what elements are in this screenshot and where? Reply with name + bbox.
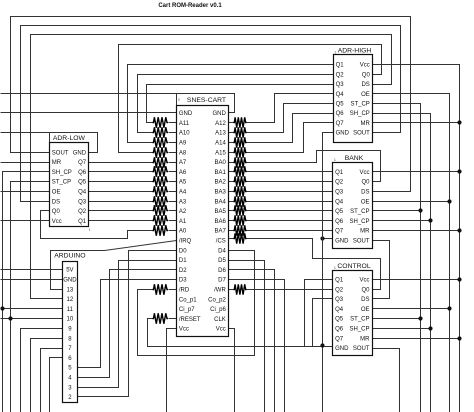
wire wire A8 resistor to pin bbox=[169, 152, 177, 154]
svg-text:OE: OE bbox=[361, 199, 370, 205]
svg-text:SH_CP: SH_CP bbox=[349, 327, 369, 333]
wire net ARDUINO.5 to SNES.D3 bbox=[78, 280, 177, 368]
svg-text:Q6: Q6 bbox=[78, 170, 87, 176]
svg-text:SOUT: SOUT bbox=[353, 131, 370, 137]
resistor R A0 bbox=[153, 225, 169, 235]
junction SH rail at BANK.SH_CP bbox=[428, 218, 432, 222]
svg-text:Q6: Q6 bbox=[335, 219, 344, 225]
wire wire left edge to ARDUINO.11 bbox=[1, 308, 63, 310]
resistor R WR bbox=[234, 284, 247, 294]
svg-text:D3: D3 bbox=[179, 278, 187, 284]
wire net ADR-HIGH.OE rail bbox=[373, 94, 450, 412]
wire wire A11 resistor to pin bbox=[169, 122, 177, 124]
resistor R A14 bbox=[234, 137, 247, 147]
wire net ARDUINO.2 to SNES.D0 bbox=[78, 251, 177, 397]
svg-text:DS: DS bbox=[361, 190, 369, 196]
wire net ADR-HIGH.SH_CP rail bbox=[373, 114, 431, 412]
svg-text:A14: A14 bbox=[215, 141, 226, 147]
pin labels BANK left bbox=[335, 170, 349, 245]
wire net ADR-LOW.ST_CP down-left rail bbox=[11, 182, 50, 412]
wire net ARDUINO.9 down rail bbox=[21, 329, 63, 412]
svg-text:Vcc: Vcc bbox=[359, 278, 369, 284]
resistor R A10 bbox=[153, 127, 169, 137]
svg-text:Q3: Q3 bbox=[336, 82, 345, 88]
svg-text:ADR-HIGH: ADR-HIGH bbox=[338, 47, 372, 54]
junction Vcc rail at ADR-HIGH.MR bbox=[457, 120, 461, 124]
svg-text:Q2: Q2 bbox=[336, 72, 345, 78]
wire wire BA4 pin to resistor bbox=[229, 201, 234, 203]
wire wire /RESET resistor to pin bbox=[169, 318, 177, 320]
svg-text:Q0: Q0 bbox=[362, 72, 371, 78]
svg-text:13: 13 bbox=[67, 287, 74, 293]
svg-text:A9: A9 bbox=[179, 141, 187, 147]
junction OE rail at BANK.OE bbox=[447, 199, 451, 203]
wire net SNES.D6 down rail bbox=[229, 270, 275, 412]
wire net ARDUINO.8 down rail bbox=[31, 339, 63, 412]
IC U5 CONTROL bbox=[333, 263, 373, 356]
wire net ADR-LOW.SH_CP down-left rail bbox=[3, 172, 50, 412]
pin labels BANK right bbox=[349, 170, 370, 245]
svg-text:12: 12 bbox=[67, 297, 74, 303]
wire net ADR-HIGH.Vcc rail bbox=[373, 65, 460, 412]
svg-text:A5: A5 bbox=[179, 180, 187, 186]
resistor R RD bbox=[153, 284, 169, 294]
svg-text:Q4: Q4 bbox=[335, 199, 344, 205]
svg-text:D0: D0 bbox=[179, 248, 187, 254]
svg-text:BANK: BANK bbox=[345, 155, 364, 162]
wire net SNES.A9 to ADR-HIGH.Q1 bbox=[128, 65, 334, 143]
svg-text:ST_CP: ST_CP bbox=[52, 180, 71, 186]
wire wire A1 resistor to pin bbox=[169, 220, 177, 222]
wire wire A6 resistor to pin bbox=[169, 171, 177, 173]
svg-text:BA1: BA1 bbox=[214, 170, 226, 176]
junction ST rail at BANK.ST_CP bbox=[418, 208, 422, 212]
resistor R BA0 bbox=[234, 157, 247, 167]
wire wire BA6 pin to resistor bbox=[229, 220, 234, 222]
resistor R BA2 bbox=[234, 176, 247, 186]
wire wire /RD resistor to pin bbox=[169, 289, 177, 291]
wire wire A9 resistor to pin bbox=[169, 142, 177, 144]
svg-text:CONTROL: CONTROL bbox=[337, 263, 370, 270]
svg-text:Vcc: Vcc bbox=[216, 327, 226, 333]
svg-text:11: 11 bbox=[67, 307, 74, 313]
wire net SNES.A14 to ADR-HIGH.Q6 bbox=[247, 114, 334, 143]
svg-text:Q5: Q5 bbox=[335, 317, 344, 323]
resistor R BA4 bbox=[234, 196, 247, 206]
wire net GND left edge to SNES.GND right (over title) bbox=[1, 94, 235, 113]
wire wire BA2 pin to resistor bbox=[229, 181, 234, 183]
resistor R A4 bbox=[153, 186, 169, 196]
svg-text:Q1: Q1 bbox=[78, 219, 87, 225]
wire wire A2 resistor to pin bbox=[169, 210, 177, 212]
junction ST rail at CONTROL.ST_CP bbox=[418, 316, 422, 320]
junction Vcc rail at CONTROL.MR bbox=[457, 336, 461, 340]
svg-text:A13: A13 bbox=[215, 131, 226, 137]
resistor R A9 bbox=[153, 137, 169, 147]
svg-text:Q6: Q6 bbox=[336, 111, 345, 117]
wire wire A15 pin to resistor bbox=[229, 152, 234, 154]
wire wire BA0 pin to resistor bbox=[229, 162, 234, 164]
wire net SNES./WR to CONTROL.Q2 bbox=[247, 289, 333, 291]
svg-text:A12: A12 bbox=[215, 121, 226, 127]
svg-text:Cart ROM-Reader v0.1: Cart ROM-Reader v0.1 bbox=[158, 3, 222, 9]
resistor R BA7 bbox=[234, 225, 247, 235]
svg-text:BA6: BA6 bbox=[214, 219, 226, 225]
svg-text:GND: GND bbox=[73, 150, 87, 156]
wire net SNES.A13 to ADR-HIGH.Q5 bbox=[247, 104, 334, 133]
wire net ARDUINO.13 to SNES./IRQ bbox=[51, 241, 177, 290]
resistor R A3 bbox=[153, 196, 169, 206]
wire wire BANK.OE to OE rail bbox=[373, 201, 450, 203]
wire net ARDUINO.7 down rail bbox=[41, 349, 63, 412]
resistor R A7 bbox=[153, 157, 169, 167]
wire wire A10 resistor to pin bbox=[169, 132, 177, 134]
svg-text:SOUT: SOUT bbox=[353, 346, 370, 352]
wire wire BA1 pin to resistor bbox=[229, 171, 234, 173]
svg-text:GND: GND bbox=[179, 111, 193, 117]
svg-text:BA0: BA0 bbox=[214, 160, 226, 166]
svg-text:SOUT: SOUT bbox=[353, 239, 370, 245]
wire wire ADR-LOW title loop stub bbox=[49, 133, 51, 143]
wire net ARDUINO.6 down rail bbox=[50, 358, 63, 412]
resistor R A13 bbox=[234, 127, 247, 137]
svg-text:BA3: BA3 bbox=[214, 190, 226, 196]
wire net ADR-LOW.DS to ADR-HIGH.SOUT (top bus 2) bbox=[21, 26, 401, 202]
wire wire A5 resistor to pin bbox=[169, 181, 177, 183]
wire wire left edge to ARDUINO.5V bbox=[1, 269, 63, 271]
svg-text:/CS: /CS bbox=[216, 239, 226, 245]
svg-text:BA7: BA7 bbox=[214, 229, 226, 235]
resistor R A12 bbox=[234, 117, 247, 127]
resistor R A15 bbox=[234, 147, 247, 157]
wire net SNES.BA5 to BANK.Q5 bbox=[247, 210, 333, 212]
IC U1 SNES-CART bbox=[177, 97, 229, 337]
wire net ADR-HIGH.ST_CP rail bbox=[373, 104, 421, 412]
wire wire BA7 pin to resistor bbox=[229, 230, 234, 232]
wire wire CONTROL.ST_CP to ST rail bbox=[373, 318, 421, 320]
svg-text:D5: D5 bbox=[218, 258, 226, 264]
wire net ADR-LOW.Q0 to SNES.A0 bbox=[41, 211, 153, 239]
junction GND bus at CONTROL.GND bbox=[320, 343, 324, 347]
wire wire A7 resistor to pin bbox=[169, 162, 177, 164]
svg-text:Q3: Q3 bbox=[78, 199, 87, 205]
svg-text:Q1: Q1 bbox=[336, 63, 345, 69]
svg-text:5V: 5V bbox=[66, 268, 73, 274]
wire wire A14 pin to resistor bbox=[229, 142, 234, 144]
svg-text:DS: DS bbox=[361, 82, 369, 88]
wire net ADR-LOW.Q4 to SNES.A4 bbox=[89, 191, 153, 193]
pin labels ARDUINO bbox=[63, 268, 77, 401]
wire net SNES.Vcc right down rail bbox=[229, 329, 235, 412]
wire net SNES.A11 to ADR-HIGH.Q3 bbox=[147, 85, 334, 123]
svg-text:Q3: Q3 bbox=[335, 297, 344, 303]
svg-text:MR: MR bbox=[360, 121, 370, 127]
pin labels CONTROL right bbox=[349, 278, 370, 353]
wire net SNES.A10 to ADR-HIGH.Q2 bbox=[138, 75, 334, 133]
wire net SNES./CS to CONTROL.Q0 bbox=[247, 239, 381, 290]
svg-text:BA4: BA4 bbox=[214, 199, 226, 205]
svg-text:Q4: Q4 bbox=[78, 190, 87, 196]
resistor R A8 bbox=[153, 147, 169, 157]
wire wire A12 pin to resistor bbox=[229, 122, 234, 124]
svg-text:ST_CP: ST_CP bbox=[350, 102, 369, 108]
wire net ARDUINO.3 to SNES.D1 bbox=[78, 261, 177, 388]
junction SH_CP rail joins ARDUINO.11 bbox=[0, 306, 4, 310]
IC U6 ARDUINO bbox=[54, 252, 85, 402]
svg-text:D2: D2 bbox=[179, 268, 187, 274]
svg-text:Ci_p7: Ci_p7 bbox=[179, 307, 195, 313]
wire net SNES.BA6 to BANK.Q6 bbox=[247, 220, 333, 222]
wire wire BANK.MR to Vcc rail bbox=[373, 230, 460, 232]
svg-text:Q5: Q5 bbox=[335, 209, 344, 215]
wire wire left edge to ARDUINO.GND bbox=[1, 279, 63, 281]
wire net SNES.D7 down rail bbox=[229, 280, 285, 412]
wire net SNES.BA2 to BANK.Q2 bbox=[247, 181, 333, 183]
wire wire BANK.ST_CP to ST rail bbox=[373, 210, 421, 212]
svg-text:Q0: Q0 bbox=[361, 180, 370, 186]
svg-text:OE: OE bbox=[361, 307, 370, 313]
svg-text:Q7: Q7 bbox=[336, 121, 345, 127]
svg-text:BA5: BA5 bbox=[214, 209, 226, 215]
svg-text:ARDUINO: ARDUINO bbox=[54, 252, 85, 259]
svg-text:Vcc: Vcc bbox=[52, 219, 62, 225]
svg-text:OE: OE bbox=[361, 92, 370, 98]
wire net SNES.BA0 to BANK.Q0 bbox=[247, 151, 381, 182]
wire net SNES.A12 to ADR-HIGH.Q4 bbox=[247, 94, 334, 123]
svg-text:Co_p2: Co_p2 bbox=[208, 297, 226, 303]
wire wire CONTROL.Vcc to Vcc rail bbox=[373, 279, 460, 281]
svg-text:Q4: Q4 bbox=[336, 92, 345, 98]
wire net SNES.BA1 to BANK.Q1 bbox=[247, 171, 333, 173]
svg-text:Q2: Q2 bbox=[78, 209, 87, 215]
wire wire BA3 pin to resistor bbox=[229, 191, 234, 193]
svg-text:Q4: Q4 bbox=[335, 307, 344, 313]
wire net SNES.A8 to ADR-HIGH.Q0 (top bus 4) bbox=[119, 45, 382, 153]
resistor R A1 bbox=[153, 215, 169, 225]
wire net ADR-HIGH.GND to GND bus bbox=[323, 133, 334, 412]
svg-text:/WR: /WR bbox=[214, 288, 226, 294]
wire net SNES./RESET to GND rail bbox=[148, 319, 333, 347]
wire wire left edge to ADR-LOW.Vcc bbox=[1, 220, 50, 222]
wire net CONTROL.Q1 down to GND line bbox=[305, 280, 333, 347]
pin labels SNES-CART right bbox=[208, 111, 226, 333]
svg-text:SOUT: SOUT bbox=[52, 150, 69, 156]
svg-text:ST_CP: ST_CP bbox=[350, 317, 369, 323]
svg-text:10: 10 bbox=[67, 317, 74, 323]
svg-text:Vcc: Vcc bbox=[359, 170, 369, 176]
wire net SNES.A15 to ADR-HIGH.Q7 bbox=[247, 123, 334, 153]
wire net CONTROL.Q3 down to GND line bbox=[313, 299, 333, 347]
IC U2 ADR-LOW bbox=[50, 135, 91, 232]
wire wire BA5 pin to resistor bbox=[229, 210, 234, 212]
wire wire BANK.SH_CP to SH rail bbox=[373, 220, 431, 222]
resistor R BA3 bbox=[234, 186, 247, 196]
wire wire A3 resistor to pin bbox=[169, 201, 177, 203]
svg-text:A1: A1 bbox=[179, 219, 187, 225]
wire net ADR-LOW.Q2 to SNES.A2 bbox=[89, 210, 153, 212]
svg-text:GND: GND bbox=[336, 131, 350, 137]
wire net ARDUINO.12 to ADR-HIGH.DS (top bus 3) bbox=[31, 35, 392, 299]
wire net GND left edge to ADR-LOW.GND (over title) bbox=[1, 133, 98, 153]
svg-text:GND: GND bbox=[63, 278, 77, 284]
svg-text:SH_CP: SH_CP bbox=[349, 219, 369, 225]
wire wire left edge to ADR-LOW.OE bbox=[1, 191, 50, 193]
svg-text:MR: MR bbox=[52, 160, 62, 166]
wire net SNES.Vcc left down rail bbox=[167, 329, 177, 412]
resistor R RESET bbox=[153, 313, 169, 323]
resistor R BA6 bbox=[234, 215, 247, 225]
svg-text:SH_CP: SH_CP bbox=[52, 170, 72, 176]
svg-text:A0: A0 bbox=[179, 229, 187, 235]
wire wire CONTROL.OE to OE rail bbox=[373, 308, 450, 310]
svg-text:DS: DS bbox=[52, 199, 60, 205]
wire net ARDUINO.4 to SNES.D2 bbox=[78, 270, 177, 378]
svg-text:/IRQ: /IRQ bbox=[179, 239, 192, 245]
svg-text:Q7: Q7 bbox=[335, 229, 344, 235]
wire wire BANK.Vcc to Vcc rail bbox=[373, 171, 460, 173]
svg-text:ADR-LOW: ADR-LOW bbox=[53, 135, 86, 142]
svg-text:Q5: Q5 bbox=[78, 180, 87, 186]
wire net SNES.BA7 to BANK.Q7 bbox=[247, 230, 333, 232]
wire wire left edge to ADR-LOW.MR bbox=[1, 162, 50, 164]
svg-text:A8: A8 bbox=[179, 150, 187, 156]
wire net CONTROL.SOUT down rail bbox=[373, 349, 400, 412]
junction Vcc rail at CONTROL.Vcc bbox=[457, 277, 461, 281]
junction ST_CP rail joins ARDUINO.10 bbox=[8, 316, 12, 320]
junction GND bus at BANK.GND bbox=[320, 236, 324, 240]
svg-text:GND: GND bbox=[335, 239, 349, 245]
svg-text:Q1: Q1 bbox=[335, 170, 344, 176]
svg-text:A6: A6 bbox=[179, 170, 187, 176]
svg-text:D1: D1 bbox=[179, 258, 187, 264]
svg-text:s: s bbox=[178, 97, 180, 102]
svg-text:Vcc: Vcc bbox=[179, 327, 189, 333]
wire wire SNES title loop stub bbox=[176, 94, 178, 106]
svg-text:GND: GND bbox=[335, 346, 349, 352]
svg-text:Ci_p6: Ci_p6 bbox=[210, 307, 226, 313]
wire net SNES.D4 to SNES./RD bbox=[138, 251, 255, 356]
svg-text:GND: GND bbox=[212, 111, 226, 117]
svg-text:CLK: CLK bbox=[214, 317, 226, 323]
wire net ADR-LOW.Q6 to SNES.A6 bbox=[89, 171, 153, 173]
svg-text:SH_CP: SH_CP bbox=[350, 111, 370, 117]
svg-text:D6: D6 bbox=[218, 268, 226, 274]
svg-text:A15: A15 bbox=[215, 150, 226, 156]
svg-text:Q0: Q0 bbox=[52, 209, 61, 215]
wire net SNES.BA4 to BANK.Q4 bbox=[247, 201, 333, 203]
resistor R BA5 bbox=[234, 205, 247, 215]
wire net ADR-LOW.Q1 to SNES.A1 bbox=[89, 220, 153, 222]
junction OE rail at CONTROL.OE bbox=[447, 306, 451, 310]
svg-text:D4: D4 bbox=[218, 248, 226, 254]
resistor R CS bbox=[234, 233, 247, 243]
wire net SNES.D5 down rail bbox=[229, 261, 265, 412]
svg-text:Vcc: Vcc bbox=[360, 63, 370, 69]
svg-text:A2: A2 bbox=[179, 209, 187, 215]
svg-text:A10: A10 bbox=[179, 131, 190, 137]
wire wire GND left edge to SNES.GND left bbox=[1, 112, 177, 114]
svg-text:A3: A3 bbox=[179, 199, 187, 205]
IC U4 BANK bbox=[333, 155, 373, 249]
svg-text:Q2: Q2 bbox=[335, 287, 344, 293]
svg-text:Co_p1: Co_p1 bbox=[179, 297, 197, 303]
resistor R BA1 bbox=[234, 166, 247, 176]
svg-text:ST_CP: ST_CP bbox=[350, 209, 369, 215]
IC U3 ADR-HIGH bbox=[334, 47, 373, 142]
svg-text:Q5: Q5 bbox=[336, 102, 345, 108]
wire wire A13 pin to resistor bbox=[229, 132, 234, 134]
svg-text:/RD: /RD bbox=[179, 288, 190, 294]
svg-text:Q0: Q0 bbox=[361, 287, 370, 293]
svg-text:Q1: Q1 bbox=[335, 278, 344, 284]
svg-text:BA2: BA2 bbox=[214, 180, 226, 186]
junction Vcc rail at BANK.MR bbox=[457, 228, 461, 232]
wire wire GND bus to BANK.GND bbox=[323, 238, 333, 240]
pin labels SNES-CART left bbox=[179, 111, 201, 333]
svg-text:/RESET: /RESET bbox=[179, 317, 201, 323]
resistor R A2 bbox=[153, 205, 169, 215]
wire wire CONTROL.SH_CP to SH rail bbox=[373, 328, 431, 330]
svg-text:MR: MR bbox=[360, 336, 370, 342]
wire net BANK.SOUT to CONTROL.DS bbox=[373, 241, 390, 299]
pin labels CONTROL left bbox=[335, 278, 349, 353]
svg-text:Q2: Q2 bbox=[335, 180, 344, 186]
wire net ADR-LOW.Q7 to SNES.A7 bbox=[89, 162, 153, 164]
svg-text:MR: MR bbox=[360, 229, 370, 235]
wire wire A4 resistor to pin bbox=[169, 191, 177, 193]
resistor R A11 bbox=[153, 117, 169, 127]
junction Vcc rail at BANK.Vcc bbox=[457, 169, 461, 173]
resistor R A5 bbox=[153, 176, 169, 186]
wire net ADR-LOW.Q3 to SNES.A3 bbox=[89, 201, 153, 203]
junction SH rail at CONTROL.SH_CP bbox=[428, 326, 432, 330]
svg-text:Q3: Q3 bbox=[335, 190, 344, 196]
wire net ADR-LOW.Q5 to SNES.A5 bbox=[89, 181, 153, 183]
svg-text:Q6: Q6 bbox=[335, 327, 344, 333]
wire wire A0 resistor to pin bbox=[169, 230, 177, 232]
wire wire /CS pin to resistor bbox=[229, 238, 234, 240]
svg-text:A4: A4 bbox=[179, 190, 187, 196]
svg-text:DS: DS bbox=[361, 297, 369, 303]
wire wire ADR-HIGH.MR to Vcc rail bbox=[373, 122, 460, 124]
svg-text:A7: A7 bbox=[179, 160, 187, 166]
svg-text:Q7: Q7 bbox=[335, 336, 344, 342]
svg-text:SNES-CART: SNES-CART bbox=[187, 97, 226, 104]
wire wire left edge to ARDUINO.10 bbox=[1, 318, 63, 320]
wire net ADR-LOW.SOUT to BANK.DS (top bus 1) bbox=[11, 17, 411, 192]
svg-text:OE: OE bbox=[52, 190, 61, 196]
wire net SNES.BA3 to BANK.Q3 bbox=[247, 191, 333, 193]
pin labels ADR-HIGH left bbox=[336, 63, 350, 137]
pin labels ADR-LOW left bbox=[52, 150, 72, 225]
wire wire CONTROL.MR to Vcc rail bbox=[373, 338, 460, 340]
resistor R A6 bbox=[153, 166, 169, 176]
svg-text:Q7: Q7 bbox=[78, 160, 87, 166]
svg-text:D7: D7 bbox=[218, 278, 226, 284]
pin labels ADR-LOW right bbox=[73, 150, 87, 225]
pin labels ADR-HIGH right bbox=[350, 63, 371, 137]
svg-text:A11: A11 bbox=[179, 121, 190, 127]
wire wire /WR pin to resistor bbox=[229, 289, 234, 291]
